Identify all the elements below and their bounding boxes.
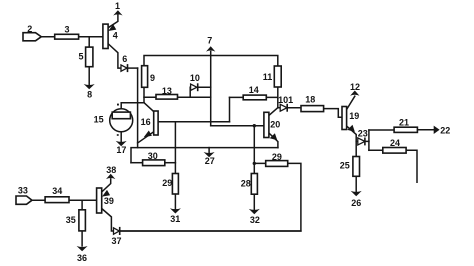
svg-text:37: 37	[111, 236, 121, 246]
svg-text:25: 25	[340, 160, 350, 170]
svg-text:2: 2	[27, 24, 32, 34]
svg-text:7: 7	[207, 36, 212, 46]
svg-text:11: 11	[263, 72, 273, 82]
svg-text:4: 4	[113, 31, 118, 41]
svg-text:13: 13	[162, 86, 172, 96]
svg-text:36: 36	[77, 253, 87, 263]
svg-text:20: 20	[270, 119, 280, 129]
svg-text:101: 101	[278, 95, 293, 105]
svg-text:33: 33	[18, 186, 28, 196]
svg-text:29: 29	[272, 152, 282, 162]
svg-text:18: 18	[305, 94, 315, 104]
svg-text:28: 28	[241, 178, 251, 188]
svg-text:10: 10	[190, 73, 200, 83]
svg-text:23: 23	[358, 128, 368, 138]
svg-text:34: 34	[52, 186, 62, 196]
svg-text:6: 6	[122, 54, 127, 64]
svg-text:38: 38	[106, 165, 116, 175]
svg-text:21: 21	[399, 118, 409, 128]
svg-text:24: 24	[390, 138, 400, 148]
svg-text:1: 1	[115, 1, 120, 11]
svg-text:14: 14	[249, 85, 259, 95]
svg-text:3: 3	[64, 25, 69, 35]
svg-text:26: 26	[351, 198, 361, 208]
svg-text:16: 16	[141, 117, 151, 127]
svg-text:31: 31	[170, 214, 180, 224]
svg-text:35: 35	[66, 215, 76, 225]
svg-text:12: 12	[350, 82, 360, 92]
svg-text:8: 8	[87, 89, 92, 99]
svg-text:32: 32	[250, 215, 260, 225]
svg-text:29: 29	[162, 178, 172, 188]
svg-text:27: 27	[205, 156, 215, 166]
svg-text:19: 19	[349, 111, 359, 121]
svg-text:17: 17	[116, 145, 126, 155]
svg-text:39: 39	[104, 196, 114, 206]
svg-text:22: 22	[440, 126, 450, 136]
svg-text:5: 5	[78, 51, 83, 61]
svg-text:9: 9	[150, 73, 155, 83]
svg-text:30: 30	[148, 151, 158, 161]
svg-text:15: 15	[94, 114, 104, 124]
